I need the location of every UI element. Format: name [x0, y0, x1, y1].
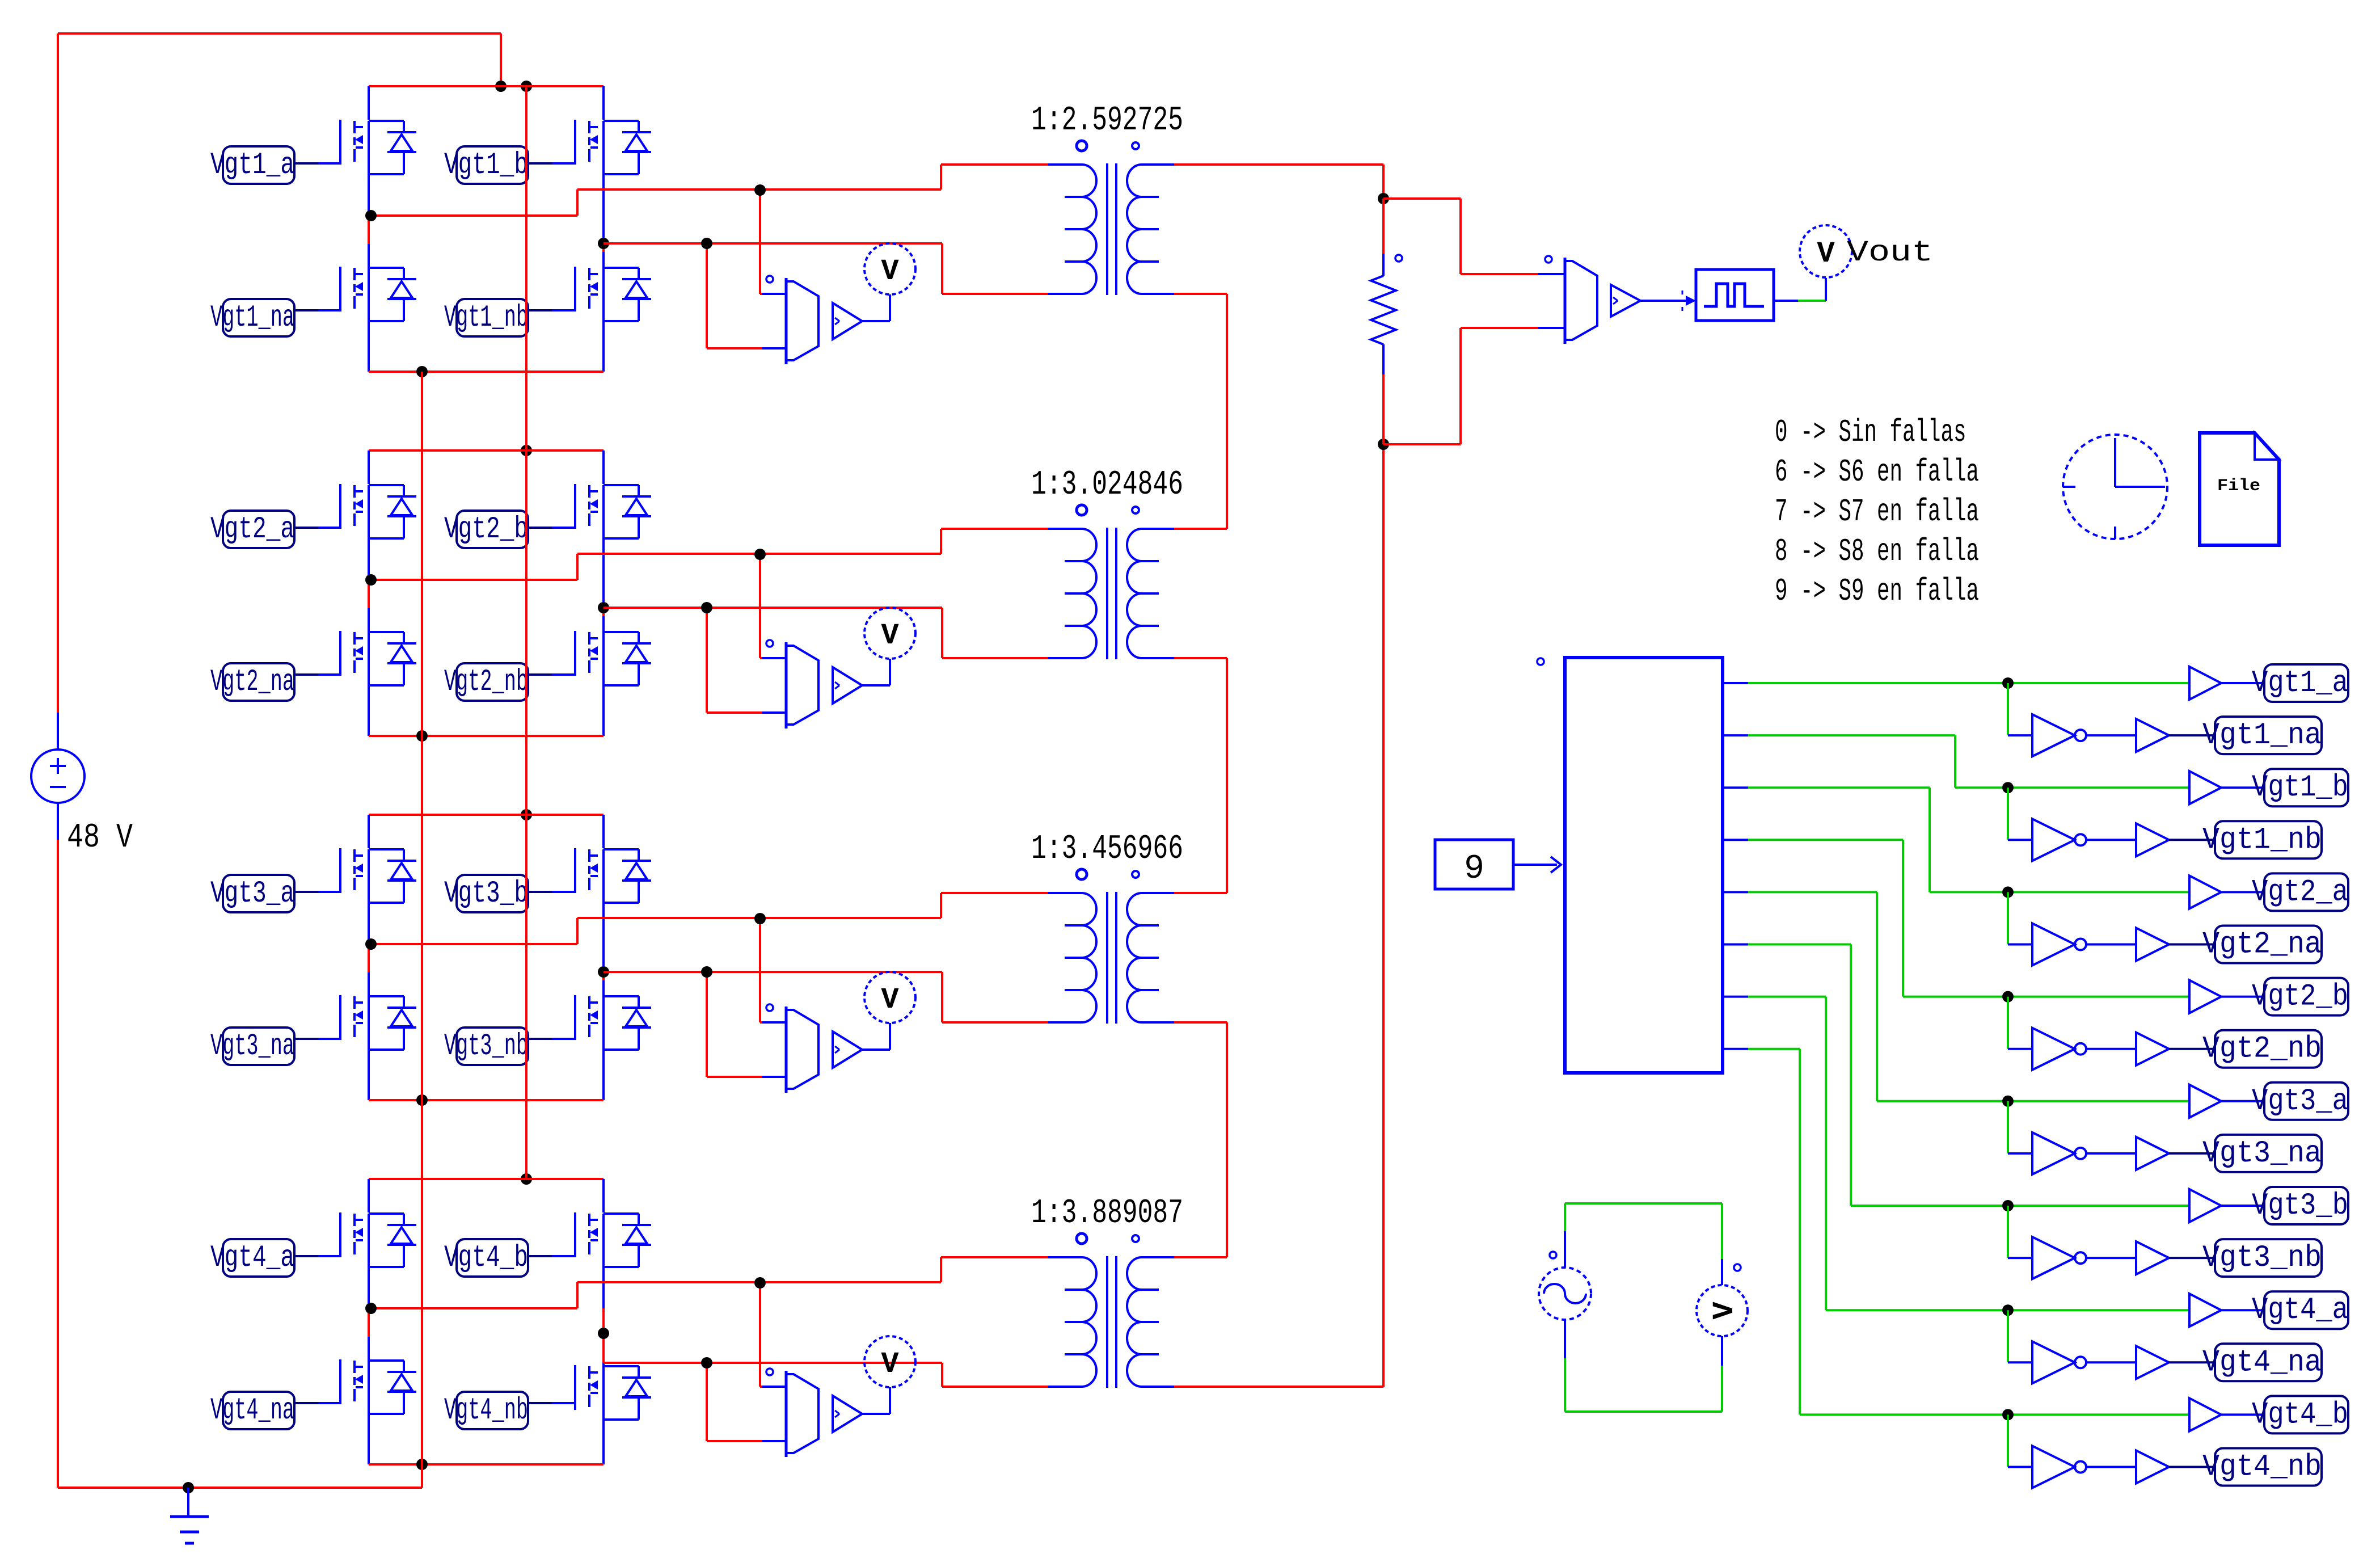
svg-text:Vgt2_a: Vgt2_a [210, 512, 294, 547]
svg-text:Vgt4_a: Vgt4_a [2252, 1293, 2348, 1328]
svg-text:Vgt1_na: Vgt1_na [2202, 718, 2322, 753]
svg-text:Vgt4_nb: Vgt4_nb [444, 1393, 528, 1428]
svg-text:Vout: Vout [1847, 236, 1933, 270]
svg-text:Vgt2_na: Vgt2_na [2202, 928, 2322, 962]
svg-text:1:2.592725: 1:2.592725 [1031, 102, 1183, 140]
svg-text:0 -> Sin fallas: 0 -> Sin fallas [1775, 414, 1967, 450]
svg-text:Vgt3_nb: Vgt3_nb [2202, 1241, 2322, 1275]
svg-text:Vgt4_b: Vgt4_b [2252, 1397, 2348, 1432]
svg-text:Vgt1_b: Vgt1_b [2252, 770, 2348, 805]
svg-text:Vgt1_b: Vgt1_b [444, 148, 528, 183]
svg-text:Vgt2_b: Vgt2_b [444, 512, 528, 547]
svg-text:9: 9 [1464, 850, 1484, 889]
svg-text:6 -> S6 en falla: 6 -> S6 en falla [1775, 454, 1979, 490]
svg-text:8 -> S8 en falla: 8 -> S8 en falla [1775, 533, 1979, 570]
svg-text:Vgt3_b: Vgt3_b [2252, 1189, 2348, 1223]
svg-text:Vgt1_nb: Vgt1_nb [2202, 823, 2322, 857]
svg-text:Vgt1_nb: Vgt1_nb [444, 301, 528, 335]
svg-text:Vgt3_na: Vgt3_na [210, 1029, 294, 1064]
svg-text:File: File [2217, 477, 2260, 496]
svg-text:Vgt4_na: Vgt4_na [210, 1393, 294, 1428]
svg-text:V: V [1708, 1302, 1741, 1320]
svg-text:Vgt2_a: Vgt2_a [2252, 875, 2348, 909]
svg-text:Vgt4_nb: Vgt4_nb [2202, 1450, 2322, 1485]
svg-text:7 -> S7 en falla: 7 -> S7 en falla [1775, 494, 1979, 530]
svg-text:Vgt3_na: Vgt3_na [2202, 1136, 2322, 1171]
svg-text:Vgt2_na: Vgt2_na [210, 665, 294, 700]
svg-text:1:3.456966: 1:3.456966 [1031, 830, 1183, 869]
svg-text:Vgt2_nb: Vgt2_nb [2202, 1032, 2322, 1067]
svg-text:Vgt4_b: Vgt4_b [444, 1241, 528, 1275]
svg-text:9 -> S9 en falla: 9 -> S9 en falla [1775, 573, 1979, 609]
svg-text:Vgt3_b: Vgt3_b [444, 877, 528, 911]
svg-text:1:3.024846: 1:3.024846 [1031, 466, 1183, 504]
svg-text:Vgt4_na: Vgt4_na [2202, 1345, 2322, 1380]
svg-text:1:3.889087: 1:3.889087 [1031, 1194, 1183, 1233]
svg-text:V: V [881, 255, 899, 288]
svg-text:Vgt1_a: Vgt1_a [210, 148, 294, 183]
svg-text:V: V [881, 1348, 899, 1381]
svg-text:V: V [881, 983, 899, 1017]
svg-text:Vgt3_nb: Vgt3_nb [444, 1029, 528, 1064]
svg-text:Vgt4_a: Vgt4_a [210, 1241, 294, 1275]
svg-text:Vgt1_a: Vgt1_a [2252, 666, 2348, 701]
svg-text:V: V [881, 619, 899, 652]
svg-text:48 V: 48 V [67, 819, 133, 857]
svg-text:Vgt1_na: Vgt1_na [210, 301, 294, 335]
svg-text:V: V [1817, 237, 1835, 271]
svg-text:Vgt3_a: Vgt3_a [210, 877, 294, 911]
svg-text:Vgt3_a: Vgt3_a [2252, 1084, 2348, 1119]
svg-text:Vgt2_nb: Vgt2_nb [444, 665, 528, 700]
svg-text:Vgt2_b: Vgt2_b [2252, 980, 2348, 1014]
